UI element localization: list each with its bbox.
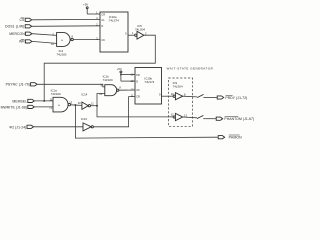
node PHANTOM output connector (216, 117, 254, 122)
wire MWRITE to IC1a input 12 (34, 106, 53, 108)
node phi2 input connector (9, 125, 33, 129)
wire to PRDY connector (203, 97, 216, 99)
svg-text:MEMSEL: MEMSEL (12, 99, 27, 103)
switch (trace cut) lower (197, 115, 203, 118)
wire CS to IC10a pin 4 (32, 18, 100, 20)
wire down to IC9 lower inverter (97, 106, 173, 117)
wire MEMCON to IC4 input 9 (32, 34, 57, 36)
svg-text:MERCON: MERCON (9, 32, 25, 36)
flip-flop IC10b 74LS74 (131, 68, 162, 105)
wire PSYNC to IC1b input (37, 84, 105, 87)
svg-text:D: D (136, 80, 138, 84)
wire +5V to IC10b pin 10 (121, 74, 135, 76)
dashed box IC9 74LS04 (169, 78, 193, 126)
svg-text:CL: CL (101, 18, 105, 22)
wire IC10a Q to IC5 input (128, 34, 135, 36)
svg-text:MWRITE (J1-68): MWRITE (J1-68) (1, 105, 28, 109)
inverter IC5 74LS04 (132, 24, 147, 39)
svg-text:+5V: +5V (83, 3, 88, 7)
svg-text:WAIT-STATE GENERATOR: WAIT-STATE GENERATOR (167, 66, 214, 70)
svg-text:74LS04: 74LS04 (173, 84, 183, 88)
wire IC9 lower output to switch (183, 116, 197, 119)
junction IC14 output (96, 105, 98, 107)
svg-text:+5V: +5V (117, 67, 122, 71)
svg-text:CR: CR (136, 95, 140, 99)
inverter IC13 (81, 117, 94, 131)
svg-text:D: D (101, 24, 103, 28)
svg-text:CK: CK (101, 38, 105, 42)
svg-text:PR: PR (136, 73, 140, 77)
svg-text:PHANTOM (J1-67): PHANTOM (J1-67) (224, 117, 254, 121)
nand gate IC4 74LS00 (51, 32, 73, 56)
svg-text:74LS04: 74LS04 (135, 28, 145, 32)
wire phi2 to IC13 input (34, 126, 84, 128)
wire IC14 output node (91, 105, 98, 107)
wire IC13 output to IC10b pin 11 (93, 97, 135, 127)
nand gate IC1a 74LS00 (49, 89, 72, 112)
node CS input connector (20, 18, 32, 22)
svg-text:74LS00: 74LS00 (51, 92, 61, 96)
svg-text:IC14: IC14 (81, 92, 87, 96)
svg-text:IC13: IC13 (81, 117, 87, 121)
svg-text:74LS00: 74LS00 (103, 78, 113, 82)
power +5V (bottom) (117, 67, 122, 81)
svg-text:PRDY (J1-72): PRDY (J1-72) (225, 96, 247, 100)
power +5V (top) (83, 3, 88, 14)
svg-text:74LS00: 74LS00 (56, 52, 66, 56)
inverter IC14 (78, 92, 95, 109)
svg-text:CS: CS (20, 18, 26, 22)
svg-text:WR: WR (19, 40, 25, 44)
switch (trace cut) upper (197, 94, 203, 97)
node PSYNC input connector (6, 83, 38, 87)
wire +5V to IC10a pin 1 (87, 13, 100, 15)
node MWRITE input connector (1, 105, 35, 109)
wire IC1b output to IC10b CK (119, 89, 135, 91)
wire IC4 output to IC10a pin 3 (73, 39, 100, 41)
node PHMON output connector (218, 135, 242, 140)
wire IC10b Q to IC9 upper inverter (162, 95, 174, 97)
wire to PHANTOM connector (203, 118, 216, 120)
wire IC5 output feedback to MEMSEL node (44, 35, 155, 101)
svg-text:74LS74: 74LS74 (109, 18, 119, 22)
wire feedback up to IC1b input (97, 94, 105, 106)
node DOS1 input connector (5, 25, 32, 29)
wire +5V to IC10b pin 12 (121, 80, 135, 82)
wire DOS1 to IC10a pin 2 (32, 25, 100, 28)
svg-text:74LS74: 74LS74 (144, 80, 154, 84)
inverter IC9 lower (171, 113, 188, 121)
node PRDY output connector (217, 95, 247, 99)
wire IC1a output to IC14 input (71, 104, 82, 107)
wire MEMSEL to IC1a input 11 (34, 100, 53, 102)
node MEMCON input connector (9, 32, 32, 36)
node WR input connector (19, 39, 32, 43)
junction MEMSEL/feedback (43, 100, 45, 102)
svg-text:Φ2 (J1-24): Φ2 (J1-24) (9, 125, 26, 129)
junction IC1a-out / PHMON branch (74, 104, 76, 106)
svg-text:CK: CK (136, 88, 140, 92)
svg-text:PHMON: PHMON (229, 136, 242, 140)
svg-text:CR: CR (101, 12, 105, 16)
svg-text:DOS1 (L/W): DOS1 (L/W) (5, 25, 24, 29)
wire WR to IC4 input 10 (32, 41, 57, 43)
wire IC9 upper output to switch (183, 95, 198, 98)
svg-text:PSYNC (J1-76): PSYNC (J1-76) (6, 83, 30, 87)
nand gate IC1b 74LS00 (99, 74, 121, 96)
wire branch down to PHMON output (75, 105, 217, 138)
node MEMSEL input connector (12, 99, 34, 103)
flip-flop IC10a 74LS74 (96, 11, 128, 52)
inverter IC9 upper (171, 92, 186, 100)
